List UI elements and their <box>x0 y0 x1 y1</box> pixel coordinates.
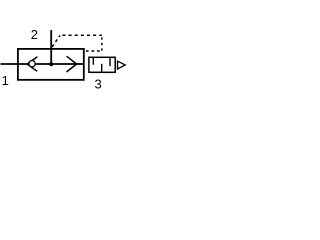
pilot line dashed top horizontal <box>62 34 101 36</box>
wire port 2 line <box>50 30 52 64</box>
silencer baffle left <box>92 57 94 65</box>
wire internal flow path 1 to 3 <box>18 63 84 65</box>
svg-text:2: 2 <box>31 27 38 42</box>
node junction dot <box>49 62 53 66</box>
pilot line dashed right vertical <box>101 37 103 51</box>
valve body box <box>18 49 84 80</box>
silencer outlet triangle <box>118 61 126 69</box>
svg-text:1: 1 <box>2 73 9 88</box>
check valve seat V <box>27 57 37 72</box>
silencer body <box>89 57 115 72</box>
flow direction arrow <box>67 56 77 72</box>
pilot line dashed bottom horizontal <box>86 50 102 52</box>
check valve ball <box>29 61 35 67</box>
silencer baffle right <box>109 57 111 66</box>
wire port 1 supply line <box>1 63 19 65</box>
silencer baffle middle <box>101 64 103 73</box>
svg-text:3: 3 <box>94 77 101 92</box>
pilot line dashed diagonal <box>52 35 60 47</box>
